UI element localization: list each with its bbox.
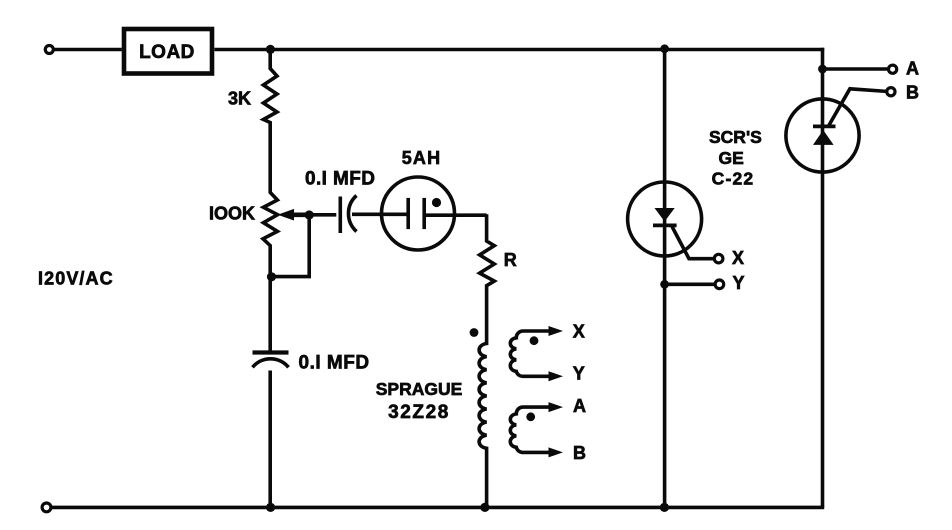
svg-text:3K: 3K [228,89,251,109]
svg-text:0.I MFD: 0.I MFD [299,353,370,374]
svg-text:A: A [573,396,586,416]
svg-text:A: A [906,59,919,79]
svg-text:I20V/AC: I20V/AC [38,269,114,289]
svg-text:SCR'S: SCR'S [709,127,762,147]
svg-text:C-22: C-22 [712,168,755,188]
svg-text:B: B [573,443,586,463]
svg-text:SPRAGUE: SPRAGUE [376,379,463,399]
svg-text:GE: GE [719,148,744,168]
svg-text:IOOK: IOOK [209,204,255,224]
svg-text:0.I MFD: 0.I MFD [305,169,375,190]
svg-text:32Z28: 32Z28 [388,402,450,423]
svg-text:Y: Y [733,273,745,293]
svg-text:R: R [504,250,517,270]
svg-text:X: X [732,248,744,268]
svg-text:5AH: 5AH [402,148,442,168]
svg-text:X: X [573,322,585,342]
svg-text:LOAD: LOAD [139,42,195,63]
svg-text:B: B [906,83,919,103]
svg-text:Y: Y [573,364,585,384]
